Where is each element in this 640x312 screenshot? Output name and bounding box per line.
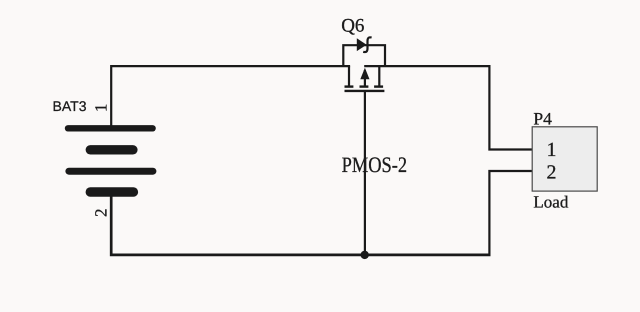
svg-text:Load: Load [533,193,568,212]
svg-text:2: 2 [91,209,110,218]
svg-text:Q6: Q6 [341,15,364,36]
wire: battery pin1 up to top rail left segment (to Q6 source) [111,66,350,128]
battery BAT3 plate 3 (long) [65,168,156,175]
Q6 channel bar left [345,85,354,87]
battery BAT3 [65,125,157,197]
Q6 channel bar right [374,85,383,87]
connector P4 [532,127,597,191]
Q6 channel bar middle [360,85,369,87]
Q6 bulk arrow shaft [364,70,366,88]
wire: top rail right segment (Q6 bulk/drain to P4 pin 1) [364,66,533,149]
junction: gate/bottom-rail node [361,251,369,259]
Q6 body-diode cathode bar (curved) [363,37,371,52]
battery BAT3 plate 1 (long) [65,125,156,131]
Q6 body-diode loop wire [343,45,385,66]
svg-text:BAT3: BAT3 [53,98,87,114]
svg-text:1: 1 [547,139,557,161]
svg-text:PMOS-2: PMOS-2 [342,152,408,177]
svg-text:1: 1 [92,104,111,113]
P4 body box [532,127,597,191]
battery BAT3 plate 4 (short) [86,187,139,197]
wire: Q6 gate down to bottom rail [364,91,366,255]
svg-text:2: 2 [547,161,557,183]
wire: P4 pin 2 down to bottom rail [489,171,533,255]
svg-text:P4: P4 [533,108,552,128]
Q6 body-diode anode triangle [357,38,367,51]
Q6 source leg [348,66,350,87]
transistor Q6 (PMOS with body diode) [343,37,385,91]
battery BAT3 plate 2 (short) [86,145,138,154]
Q6 drain leg [378,66,380,87]
wire: bottom rail up to battery pin2 [111,192,490,255]
Q6 bulk arrow head [360,68,369,79]
Q6 gate bar [345,90,385,92]
